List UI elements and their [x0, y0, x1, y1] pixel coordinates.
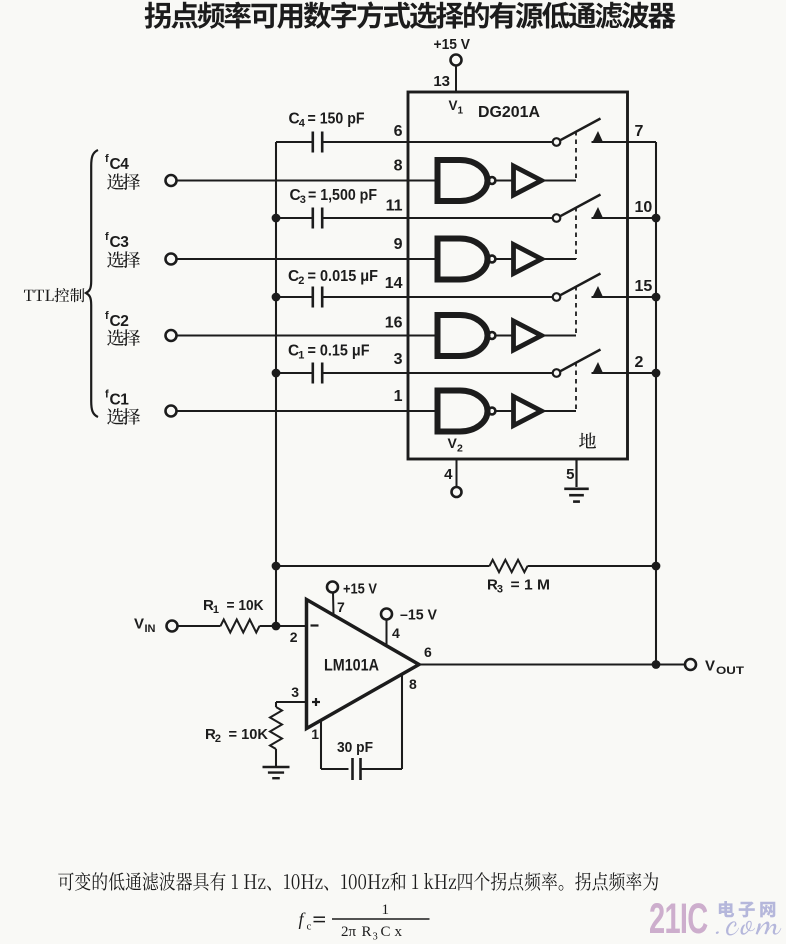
svg-text:1: 1 — [298, 350, 304, 362]
svg-text:f: f — [105, 231, 109, 243]
svg-text:DG201A: DG201A — [478, 104, 540, 121]
svg-text:= 0.015 μF: = 0.015 μF — [308, 268, 379, 285]
svg-text:= 10K: = 10K — [229, 726, 269, 743]
svg-text:11: 11 — [386, 198, 403, 215]
svg-text:4: 4 — [444, 466, 453, 483]
svg-text:V: V — [448, 435, 458, 451]
svg-text:2: 2 — [635, 354, 644, 371]
svg-text:7: 7 — [635, 123, 644, 140]
svg-text:4: 4 — [392, 625, 400, 641]
svg-text:4: 4 — [299, 118, 306, 130]
svg-text:R: R — [362, 924, 372, 940]
svg-text:LM101A: LM101A — [324, 657, 379, 675]
svg-text:6: 6 — [424, 644, 432, 660]
svg-text:V: V — [705, 658, 715, 675]
svg-text:2: 2 — [215, 733, 221, 745]
svg-text:2π: 2π — [341, 924, 357, 940]
svg-text:V: V — [449, 98, 458, 113]
svg-text:C1: C1 — [110, 392, 130, 409]
svg-text:30 pF: 30 pF — [337, 739, 373, 756]
svg-text:= 0.15 μF: = 0.15 μF — [308, 343, 370, 360]
svg-text:10: 10 — [635, 199, 653, 216]
svg-text:= 10K: = 10K — [227, 597, 264, 614]
svg-text:13: 13 — [433, 73, 450, 90]
svg-text:+15 V: +15 V — [343, 581, 377, 598]
svg-text:7: 7 — [337, 599, 345, 615]
svg-text:2: 2 — [290, 629, 298, 645]
svg-text:OUT: OUT — [716, 665, 744, 677]
svg-text:8: 8 — [394, 158, 403, 175]
svg-text:21IC: 21IC — [649, 894, 708, 942]
svg-text:5: 5 — [566, 466, 574, 483]
svg-text:8: 8 — [409, 676, 417, 692]
svg-text:C2: C2 — [110, 313, 129, 330]
svg-text:= 1,500 pF: = 1,500 pF — [308, 187, 377, 204]
svg-text:IN: IN — [145, 623, 156, 635]
svg-text:16: 16 — [385, 315, 403, 332]
svg-text:2: 2 — [298, 275, 304, 287]
svg-text:3: 3 — [373, 932, 378, 943]
svg-text:14: 14 — [385, 275, 403, 292]
svg-text:3: 3 — [300, 194, 306, 206]
svg-text:V: V — [134, 616, 144, 633]
svg-text:= 150 pF: = 150 pF — [308, 111, 365, 128]
svg-text:1: 1 — [382, 902, 390, 918]
svg-text:9: 9 — [394, 236, 403, 253]
svg-text:2: 2 — [457, 443, 463, 455]
svg-text:f: f — [105, 389, 109, 401]
svg-text:C: C — [381, 924, 391, 940]
svg-text:C4: C4 — [110, 156, 130, 173]
svg-text:1: 1 — [213, 604, 219, 616]
svg-text:3: 3 — [497, 584, 503, 596]
svg-text:3: 3 — [394, 351, 403, 368]
svg-text:f: f — [105, 153, 109, 165]
svg-text:C3: C3 — [110, 234, 130, 251]
svg-text:15: 15 — [635, 278, 653, 295]
svg-text:1: 1 — [458, 106, 464, 117]
svg-text:c: c — [307, 921, 312, 933]
svg-text:f: f — [105, 310, 109, 322]
svg-text:= 1 M: = 1 M — [511, 577, 551, 594]
svg-text:–15 V: –15 V — [400, 607, 437, 624]
svg-text:6: 6 — [394, 123, 403, 140]
svg-text:x: x — [395, 924, 403, 940]
svg-text:3: 3 — [291, 684, 299, 700]
svg-text:1: 1 — [311, 726, 319, 742]
svg-text:+15 V: +15 V — [434, 36, 471, 53]
svg-text:1: 1 — [394, 388, 403, 405]
